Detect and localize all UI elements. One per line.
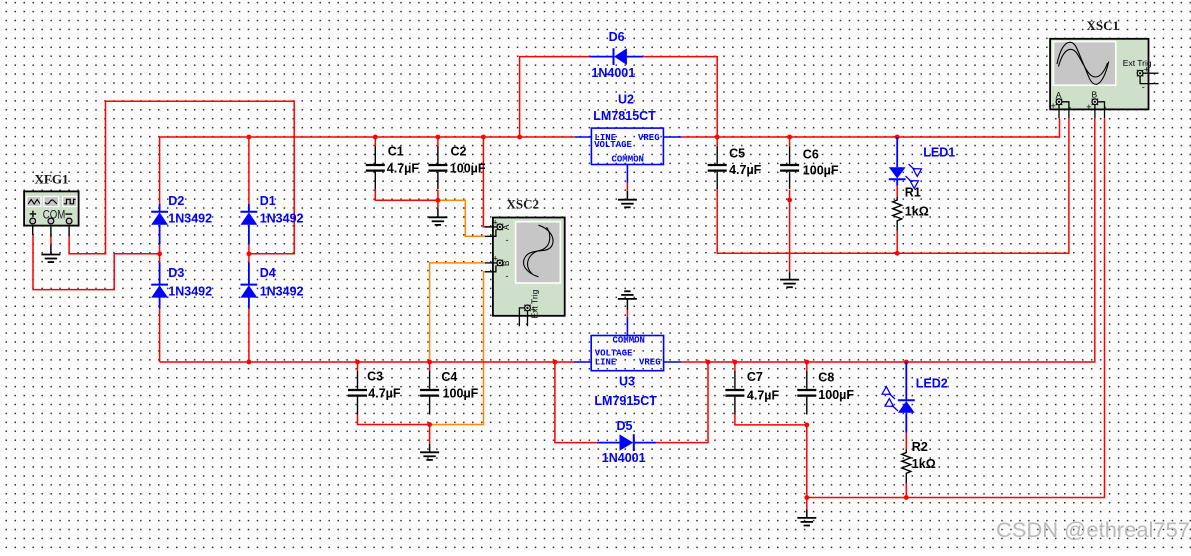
wire C7 top stub <box>734 362 736 371</box>
XSC2 terminal Ext <box>524 305 530 311</box>
XSC2 terminal A <box>497 224 503 230</box>
capacitor C1 <box>366 147 385 190</box>
wire XFG1 + to bridge left mid <box>33 235 160 290</box>
svg-text:U2: U2 <box>618 93 634 107</box>
capacitor C4 <box>420 371 439 415</box>
wire bridge right column upper <box>248 137 250 204</box>
svg-text:+: + <box>493 218 498 228</box>
wire C4 ground stem <box>429 444 431 453</box>
svg-text:A: A <box>502 224 511 230</box>
svg-text:C4: C4 <box>441 370 457 384</box>
wire C2 top stub <box>437 137 439 147</box>
wire top rail left of U2 <box>160 136 575 138</box>
svg-text:+: + <box>493 254 498 264</box>
junction bottom rail / D4 column <box>247 360 252 365</box>
LED LED2 <box>882 362 915 433</box>
svg-text:C5: C5 <box>729 147 745 161</box>
diode D1 <box>241 204 258 245</box>
diode D4 <box>241 262 258 308</box>
svg-text:COMMON: COMMON <box>612 155 644 165</box>
ground under XFG1 COM <box>41 255 60 263</box>
svg-text:1kΩ: 1kΩ <box>912 457 936 471</box>
svg-text:1N3492: 1N3492 <box>260 212 304 226</box>
wire U2 COMMON to ground <box>626 183 628 191</box>
wire U2 ground stem <box>626 191 628 200</box>
svg-text:-: - <box>1068 102 1071 112</box>
wire C8 node to ground <box>806 425 808 510</box>
wire U3 COMMON to ground <box>626 310 628 317</box>
svg-text:B: B <box>502 261 511 266</box>
wire XSC2 B- to C4 node (orange) <box>430 272 491 425</box>
wire D5 loop left <box>555 362 597 443</box>
wire bridge right column middle <box>248 244 250 262</box>
capacitor C2 <box>428 147 447 190</box>
svg-text:1N3492: 1N3492 <box>168 284 212 298</box>
svg-text:VREG: VREG <box>639 357 661 367</box>
junction R2 bottom node <box>904 495 909 500</box>
op-amp U3 LM7915CT box <box>574 317 681 371</box>
svg-text:4.7µF: 4.7µF <box>387 162 420 176</box>
svg-text:R1: R1 <box>905 186 921 200</box>
wire R2 to bottom line <box>905 483 907 498</box>
wire R1 to A- line <box>896 231 898 254</box>
wire C1 bottom to C2 bottom <box>375 189 438 200</box>
svg-text:Ext Trig: Ext Trig <box>530 289 540 318</box>
wire C4 top stub <box>429 362 431 371</box>
wire top rail right of U2 <box>682 118 1060 137</box>
svg-text:+: + <box>1086 102 1091 112</box>
junction top rail / D6 branch <box>517 135 522 140</box>
oscilloscope XSC1 <box>1050 39 1159 119</box>
ground under U2 COMMON <box>618 200 637 208</box>
svg-text:D3: D3 <box>168 266 184 280</box>
wire C1 top stub <box>374 137 376 147</box>
junction top rail / XSC2 A <box>481 135 486 140</box>
capacitor C3 <box>348 371 367 415</box>
diode D3 <box>151 262 168 308</box>
wire bottom rail right of U3 <box>681 118 1095 362</box>
svg-text:+: + <box>1144 65 1149 75</box>
svg-text:1N3492: 1N3492 <box>260 284 304 298</box>
diode D6 <box>590 48 644 65</box>
junction top rail / C5 <box>715 135 720 140</box>
svg-text:4.7µF: 4.7µF <box>729 163 762 177</box>
wire XSC2 B+ to bottom rail (orange) <box>430 263 485 362</box>
oscilloscope XSC2 <box>485 218 565 327</box>
function generator XFG1 <box>24 191 79 237</box>
op-amp U2 LM7815CT box <box>575 128 682 183</box>
LED LED1 <box>889 137 922 188</box>
svg-text:-: - <box>1104 102 1107 112</box>
svg-text:XFG1: XFG1 <box>35 172 69 187</box>
junction top rail / LED1 <box>895 135 900 140</box>
capacitor C5 <box>708 147 727 190</box>
diode D2 <box>151 204 168 245</box>
wire C6 ground stem <box>789 272 791 279</box>
svg-text:100µF: 100µF <box>818 388 854 402</box>
wire LED1 to R1 <box>896 186 898 197</box>
wire C4 node to ground <box>429 425 431 444</box>
wire LED2 to R2 <box>905 433 907 450</box>
wire C8 ground stem <box>806 510 808 518</box>
wire bottom rail left of U3 <box>160 361 574 363</box>
svg-text:4.7µF: 4.7µF <box>368 386 401 400</box>
junction bottom rail / C7 <box>733 360 738 365</box>
svg-text:COMMON: COMMON <box>613 335 645 345</box>
svg-text:D4: D4 <box>260 266 276 280</box>
junction top rail / C6 <box>787 135 792 140</box>
svg-text:LED2: LED2 <box>916 376 948 390</box>
svg-text:C7: C7 <box>747 370 763 384</box>
wire C3 bottom to C4 node <box>358 415 430 425</box>
resistor R1 <box>893 197 902 231</box>
svg-text:XSC2: XSC2 <box>507 197 540 212</box>
wire C8 top stub <box>806 362 808 371</box>
ground above U3 COMMON <box>618 291 637 299</box>
junction top rail / C1 <box>373 135 378 140</box>
capacitor C8 <box>797 371 816 415</box>
wire C7 bottom to C8 node <box>735 415 807 425</box>
wire C3 top stub <box>357 362 359 371</box>
wire XFG1 COM to ground <box>50 237 52 245</box>
wire bridge left column middle <box>159 244 161 262</box>
capacitor C6 <box>780 147 799 190</box>
svg-text:1N3492: 1N3492 <box>168 212 212 226</box>
svg-text:-: - <box>506 271 509 281</box>
junction bottom rail / C3 <box>355 360 360 365</box>
svg-text:C3: C3 <box>367 369 383 383</box>
svg-text:D5: D5 <box>617 419 633 433</box>
wire U3 ground stem <box>626 299 628 310</box>
svg-text:1N4001: 1N4001 <box>602 451 646 465</box>
XSC1 terminal Ext <box>1137 70 1143 76</box>
XSC1 polarity marks <box>1051 65 1150 113</box>
svg-text:-: - <box>1142 82 1145 92</box>
ground under C6 <box>780 280 799 288</box>
junction C6 wire node <box>787 198 792 203</box>
junction C7-C8 bottom node <box>804 423 809 428</box>
junction C8 ground / XSC1 B- node <box>804 495 809 500</box>
wire bridge right column lower <box>248 309 250 363</box>
junction bottom rail / D5 branch <box>553 360 558 365</box>
wire D6 loop left <box>520 57 590 137</box>
svg-text:C6: C6 <box>803 148 819 162</box>
wire C5 top stub <box>716 137 718 147</box>
wire D6 loop right <box>643 57 717 137</box>
junction bottom rail / C8 <box>804 360 809 365</box>
svg-text:LINE: LINE <box>595 357 617 367</box>
wire C6 top stub <box>789 137 791 147</box>
wire bridge left column upper <box>159 137 161 204</box>
svg-text:C1: C1 <box>388 144 404 158</box>
wire C2 node to XSC2 A- (orange) <box>438 200 485 236</box>
svg-text:B: B <box>1092 90 1098 100</box>
XSC1 terminal A <box>1056 99 1062 105</box>
svg-text:U3: U3 <box>619 375 635 389</box>
junction top rail / C2 <box>436 135 441 140</box>
svg-text:D2: D2 <box>168 194 184 208</box>
svg-text:-: - <box>518 310 521 320</box>
svg-text:100µF: 100µF <box>803 164 839 178</box>
capacitor C7 <box>725 371 744 415</box>
svg-text:VOLTAGE: VOLTAGE <box>594 140 632 150</box>
svg-text:-: - <box>506 235 509 245</box>
svg-text:LED1: LED1 <box>923 146 955 160</box>
XSC2 polarity marks <box>493 218 536 321</box>
svg-text:LM7815CT: LM7815CT <box>593 109 656 123</box>
svg-text:LM7915CT: LM7915CT <box>594 394 657 408</box>
svg-text:D1: D1 <box>260 194 276 208</box>
junction bottom rail / LED2 <box>904 360 909 365</box>
wire C6 bottom to ground <box>789 190 791 273</box>
svg-text:1N4001: 1N4001 <box>591 66 635 80</box>
svg-text:VREG: VREG <box>638 133 660 143</box>
resistor R2 <box>902 450 911 484</box>
junction bottom rail / D5 return <box>706 360 711 365</box>
wire bridge left column lower <box>159 309 161 363</box>
junction bottom rail / C4 / XSC2 B+ <box>427 360 432 365</box>
svg-text:CSDN @ethreal757: CSDN @ethreal757 <box>996 518 1190 542</box>
svg-text:D6: D6 <box>609 30 625 44</box>
wire D5 loop right <box>656 362 708 443</box>
svg-text:+: + <box>1051 101 1056 111</box>
svg-text:4.7µF: 4.7µF <box>747 389 780 403</box>
junction R1 / +out lower line <box>895 251 900 256</box>
svg-text:C2: C2 <box>451 144 467 158</box>
wire XFG1 - to bridge right mid <box>69 101 294 254</box>
wire C8 ground node to XSC1 B- <box>807 118 1105 497</box>
wire C2 ground stem <box>437 209 439 218</box>
junction bridge left mid node <box>157 251 162 256</box>
svg-text:XSC1: XSC1 <box>1087 18 1120 33</box>
wire C5 bottom to XSC1 A- <box>717 118 1069 253</box>
junction C3-C4 bottom node <box>427 422 432 427</box>
wire C2 bottom to ground <box>437 190 439 209</box>
XSC2 terminal B <box>497 260 503 266</box>
svg-text:C8: C8 <box>818 371 834 385</box>
junction top rail / D1 column <box>247 135 252 140</box>
svg-text:100µF: 100µF <box>450 162 486 176</box>
svg-text:1kΩ: 1kΩ <box>905 204 929 218</box>
wire COM ground stem <box>50 245 52 255</box>
diode D5 <box>597 434 656 451</box>
ground under C4 <box>420 452 439 460</box>
ground under C2 <box>428 217 447 225</box>
junction bridge right mid node <box>247 251 252 256</box>
svg-text:100µF: 100µF <box>443 387 479 401</box>
junction C2 ground node <box>436 198 441 203</box>
XSC1 terminal B <box>1092 99 1098 105</box>
svg-text:A: A <box>1056 90 1062 100</box>
wire rail to XSC2 A+ <box>483 137 491 227</box>
svg-text:R2: R2 <box>912 440 928 454</box>
ground under C8 <box>797 518 816 526</box>
